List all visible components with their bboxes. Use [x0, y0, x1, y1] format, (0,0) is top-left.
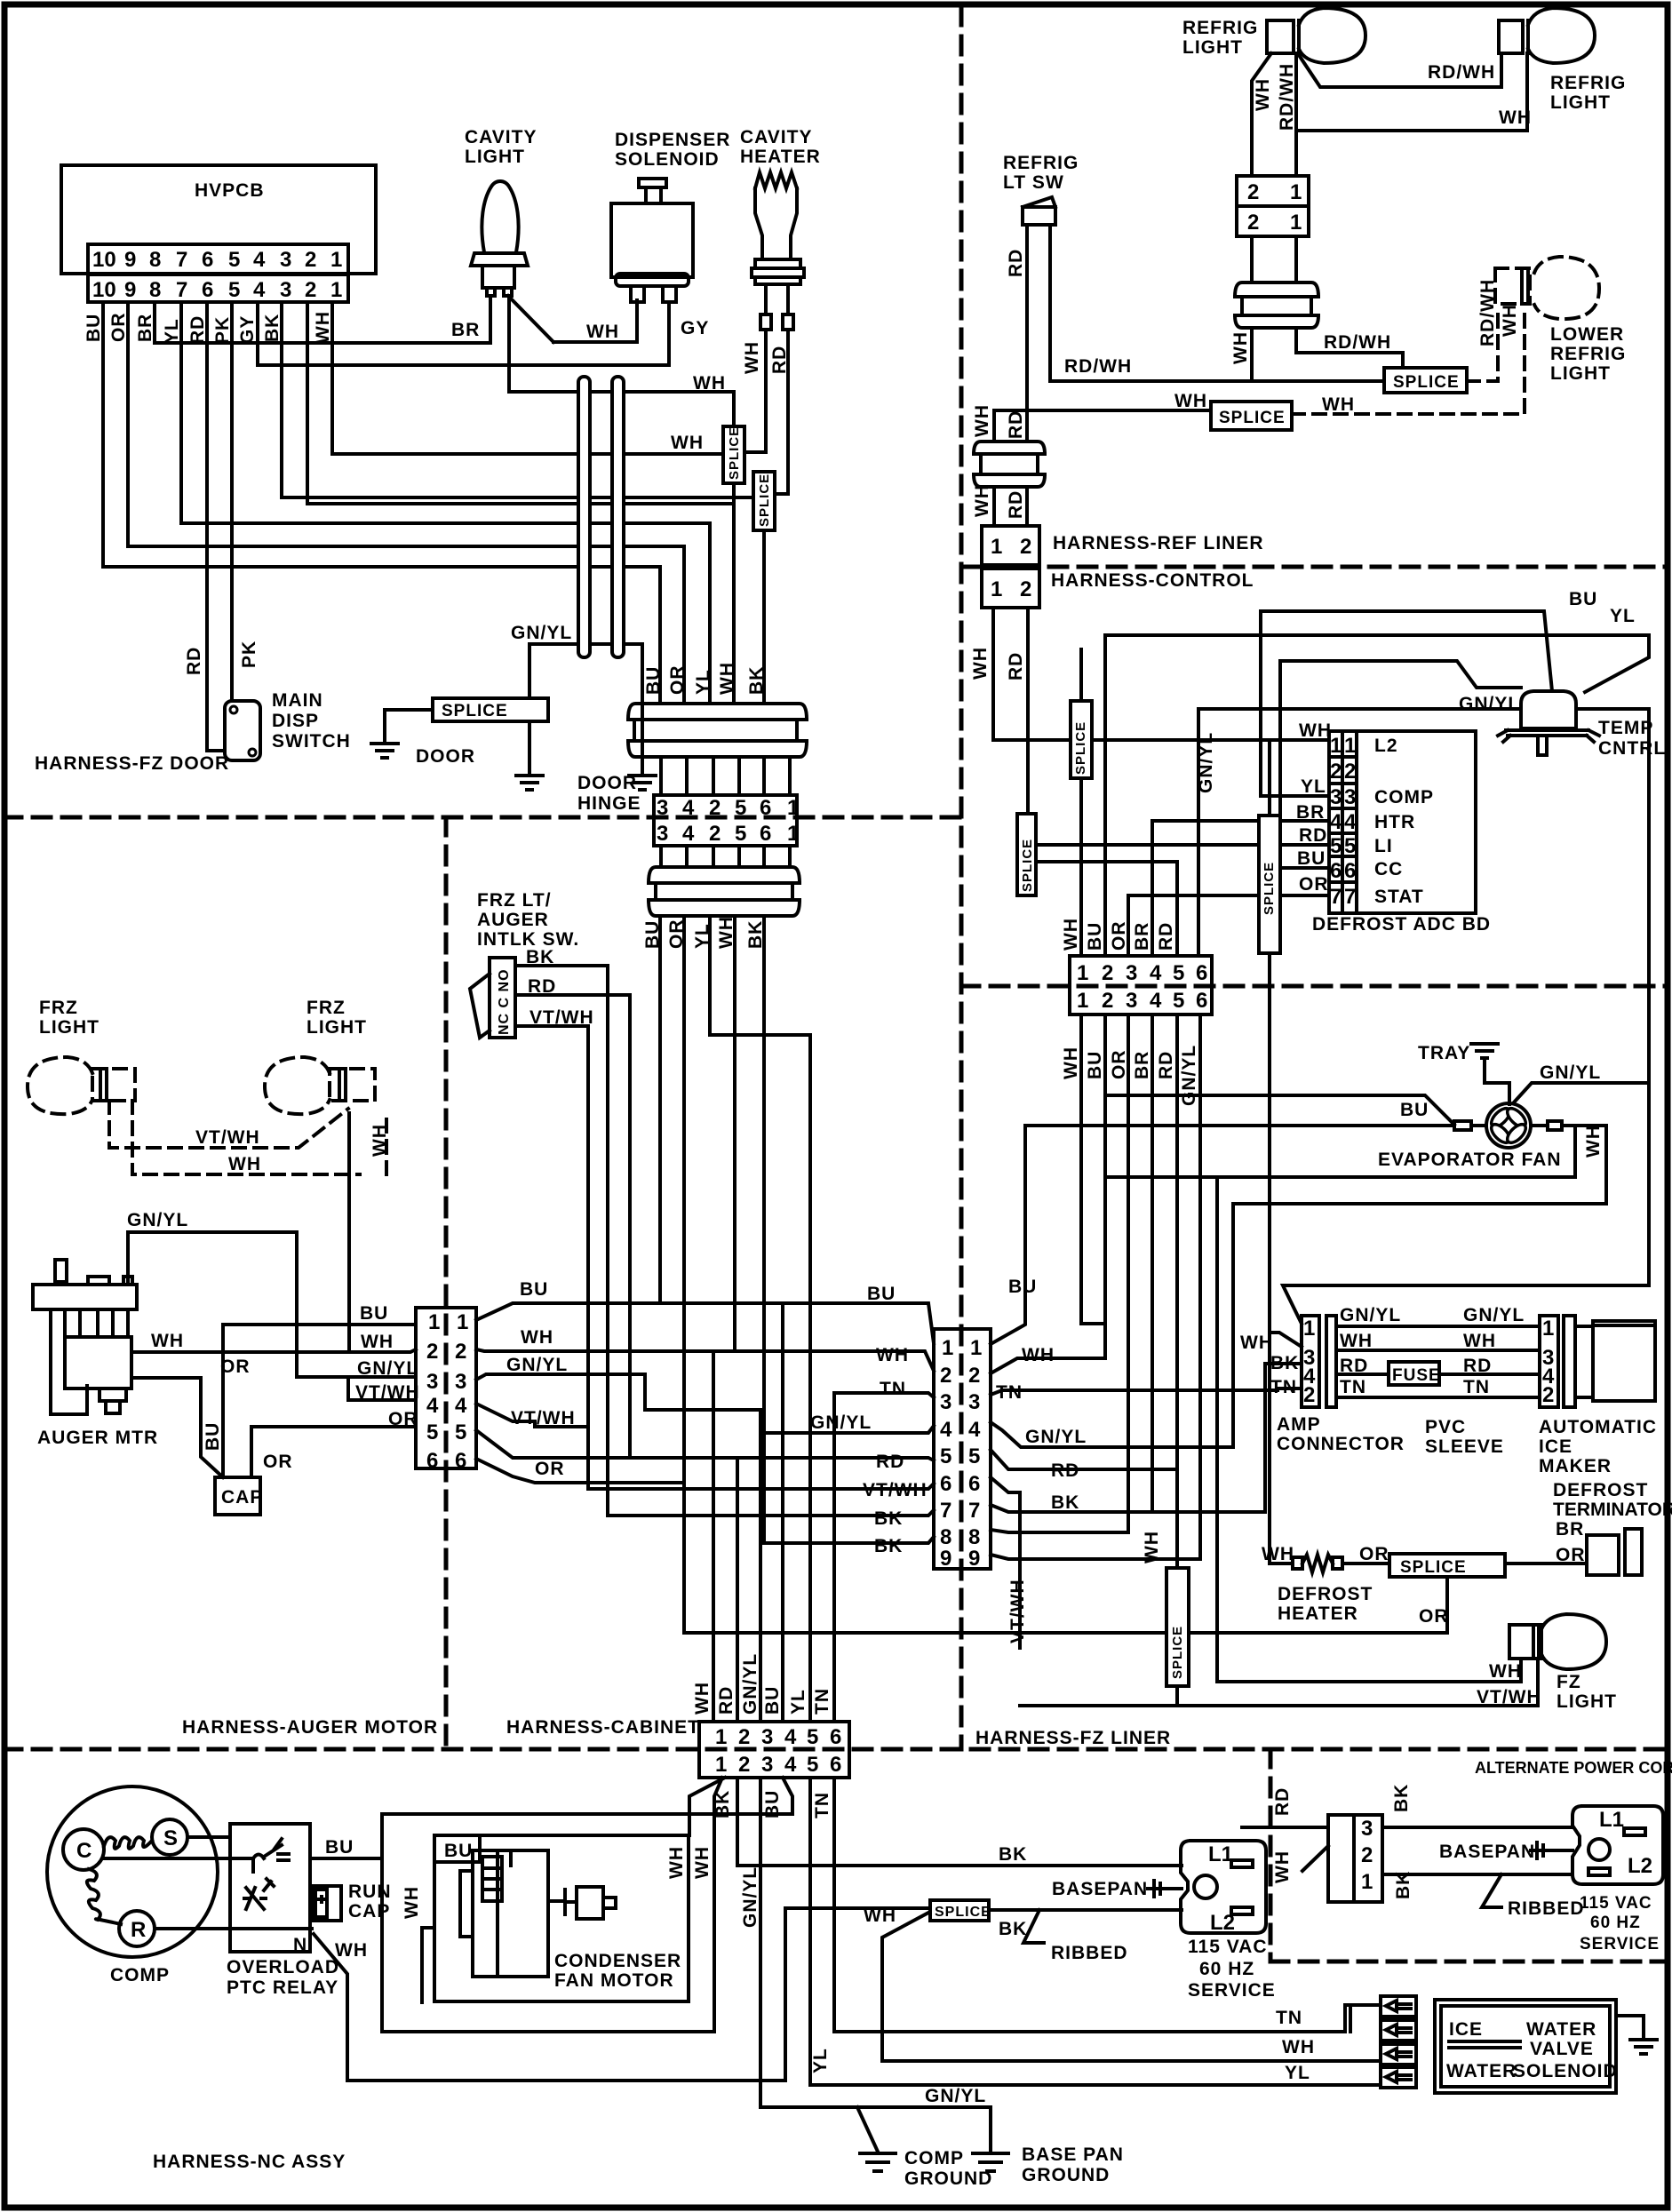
- refrig lt sw RD/WH wire: [1050, 225, 1384, 381]
- svg-text:RD: RD: [528, 976, 556, 997]
- solenoid pins: [631, 286, 644, 302]
- svg-text:5: 5: [426, 1420, 438, 1444]
- svg-text:2: 2: [1020, 577, 1031, 601]
- WH wire right light: [1297, 53, 1527, 131]
- S wire to relay: [187, 1835, 230, 1839]
- TN wire pin3 left: [834, 1393, 934, 1397]
- BR wire pin4: [1152, 821, 1329, 956]
- VT/WH wire intlk: [515, 1026, 934, 1489]
- svg-text:WH: WH: [864, 1906, 896, 1926]
- svg-text:RD: RD: [1299, 825, 1327, 846]
- 9pin connector box: [934, 1329, 991, 1569]
- svg-text:YL: YL: [1285, 2063, 1310, 2083]
- svg-text:SOLENOID: SOLENOID: [1513, 2061, 1618, 2081]
- WH wire to water valve: [882, 2059, 1381, 2063]
- splice5 box: [1259, 816, 1280, 953]
- svg-text:RD: RD: [1272, 1787, 1293, 1816]
- svg-text:LI: LI: [1374, 836, 1393, 856]
- svg-text:BU: BU: [84, 314, 104, 342]
- svg-text:TN: TN: [1463, 1377, 1490, 1397]
- WH wire cavity to solenoid: [553, 340, 637, 344]
- OR wire below boot to defrost heater return: [682, 916, 686, 1633]
- svg-text:GN/YL: GN/YL: [127, 1210, 188, 1230]
- door hinge connector box: [654, 795, 797, 846]
- svg-text:HEATER: HEATER: [740, 147, 821, 167]
- svg-text:GN/YL: GN/YL: [925, 2086, 986, 2106]
- svg-text:N: N: [293, 1935, 307, 1955]
- svg-text:6: 6: [760, 822, 771, 846]
- ice maker columns: [1540, 1316, 1558, 1407]
- connector 2-1 box: [1237, 176, 1309, 206]
- svg-text:HEATER: HEATER: [1278, 1603, 1358, 1624]
- svg-text:BASEPAN: BASEPAN: [1052, 1879, 1148, 1899]
- svg-text:SPLICE: SPLICE: [727, 426, 742, 480]
- right plug: [1572, 1806, 1663, 1884]
- svg-text:BU: BU: [642, 920, 663, 949]
- svg-text:WH: WH: [151, 1331, 184, 1351]
- BU wire to bundle: [476, 1303, 934, 1343]
- svg-text:1: 1: [428, 1310, 440, 1334]
- svg-text:BK: BK: [262, 314, 283, 342]
- svg-text:WH: WH: [716, 916, 736, 949]
- RD vertical cabinet: [736, 1458, 739, 1722]
- svg-text:VT/WH: VT/WH: [195, 1127, 260, 1148]
- svg-text:BU: BU: [1400, 1100, 1429, 1120]
- wire pin1 WH to splice: [332, 302, 723, 454]
- GN/YL wire pin3 down: [760, 1778, 991, 2150]
- svg-text:4: 4: [253, 278, 266, 302]
- svg-text:COMP: COMP: [904, 2148, 964, 2168]
- WH wire to splice: [994, 409, 1211, 412]
- svg-text:OR: OR: [667, 665, 688, 696]
- svg-text:4: 4: [1330, 810, 1342, 834]
- wire splice bottom to ground: [528, 721, 531, 773]
- comp ground: [860, 2153, 896, 2171]
- GN/YL wire into amp pin1: [1283, 1285, 1649, 1324]
- svg-text:1: 1: [1330, 734, 1342, 758]
- svg-text:WATER: WATER: [1446, 2061, 1517, 2081]
- svg-text:5: 5: [1173, 989, 1184, 1013]
- GN/YL wire from fan: [1514, 1083, 1649, 1102]
- TN wire pin6 down: [834, 1778, 1381, 2032]
- GN/YL wire to ice maker: [1336, 1325, 1540, 1328]
- solenoid cap: [639, 179, 666, 187]
- svg-text:BU: BU: [203, 1422, 223, 1451]
- motor windings grid: [482, 1857, 502, 1901]
- TN wire to ice maker: [1336, 1396, 1540, 1399]
- svg-text:115 VAC: 115 VAC: [1188, 1937, 1268, 1957]
- svg-text:2: 2: [426, 1340, 438, 1364]
- svg-text:TERMINATOR: TERMINATOR: [1553, 1500, 1672, 1520]
- svg-text:BU: BU: [867, 1284, 896, 1304]
- svg-text:5: 5: [1173, 961, 1184, 985]
- svg-text:3: 3: [455, 1370, 466, 1394]
- svg-text:3: 3: [426, 1370, 438, 1394]
- svg-text:10: 10: [92, 278, 116, 302]
- svg-text:HARNESS-NC ASSY: HARNESS-NC ASSY: [153, 2152, 346, 2172]
- GN/YL vertical to cabinet: [759, 1410, 762, 1722]
- svg-text:WH: WH: [1253, 78, 1273, 111]
- cavity light left pin wire: [489, 296, 492, 343]
- svg-text:3: 3: [1361, 1817, 1373, 1841]
- condenser enclosure: [434, 1835, 689, 2001]
- svg-text:SWITCH: SWITCH: [272, 731, 351, 752]
- svg-text:AMP: AMP: [1277, 1414, 1321, 1435]
- svg-text:GN/YL: GN/YL: [1025, 1427, 1087, 1447]
- svg-text:PVC: PVC: [1425, 1417, 1466, 1437]
- 9pin right: RD pin5: [991, 1450, 1177, 1469]
- svg-text:WH: WH: [586, 322, 619, 342]
- svg-text:5: 5: [228, 278, 240, 302]
- svg-text:2: 2: [305, 248, 316, 272]
- wire splice to door ground: [385, 710, 433, 741]
- svg-text:CONDENSER: CONDENSER: [554, 1951, 681, 1971]
- YL wire temp cntrl: [1105, 635, 1649, 692]
- svg-text:BU: BU: [1008, 1277, 1037, 1297]
- motor mount: [460, 1871, 473, 1937]
- svg-text:BK: BK: [746, 666, 767, 695]
- cabinet connector box: [699, 1722, 849, 1778]
- svg-text:3: 3: [1126, 989, 1137, 1013]
- svg-text:1: 1: [1290, 211, 1302, 235]
- svg-text:SPLICE: SPLICE: [757, 473, 772, 527]
- svg-text:L1: L1: [1599, 1808, 1624, 1832]
- svg-text:S: S: [163, 1826, 178, 1850]
- svg-text:RIBBED: RIBBED: [1051, 1943, 1128, 1963]
- frz light 2 socket dashed: [330, 1069, 375, 1101]
- wire pin9 OR: [128, 302, 684, 704]
- fz light bulb: [1541, 1614, 1606, 1669]
- tray ground: [1471, 1044, 1498, 1058]
- svg-text:CAVITY: CAVITY: [740, 127, 812, 147]
- VT/WH stub: [348, 1377, 416, 1400]
- svg-text:2: 2: [1247, 180, 1259, 204]
- heater right wire RD: [786, 284, 790, 314]
- svg-text:3: 3: [761, 1753, 773, 1777]
- svg-text:BU: BU: [360, 1303, 388, 1324]
- splice defrost box: [1389, 1554, 1505, 1577]
- svg-text:BU: BU: [1085, 922, 1105, 951]
- svg-text:ICE: ICE: [1449, 2019, 1483, 2040]
- BK bundle wire from splice: [762, 530, 766, 704]
- frz light 1 socket bars: [100, 1069, 107, 1101]
- svg-text:RD: RD: [1006, 652, 1026, 680]
- svg-text:OR: OR: [263, 1452, 293, 1472]
- svg-text:5: 5: [968, 1444, 980, 1468]
- OR wire below splice: [684, 1577, 1447, 1633]
- svg-text:HARNESS-AUGER MOTOR: HARNESS-AUGER MOTOR: [182, 1717, 438, 1738]
- svg-text:7: 7: [968, 1499, 980, 1523]
- svg-text:BASE PAN: BASE PAN: [1022, 2144, 1124, 2165]
- intlk switch box: [490, 958, 515, 1038]
- svg-text:BR: BR: [451, 320, 480, 340]
- svg-text:FAN MOTOR: FAN MOTOR: [554, 1970, 674, 1991]
- YL wire below boot to cabinet: [710, 916, 810, 1722]
- wire pin4 GY to dispenser solenoid: [258, 302, 669, 365]
- svg-text:7: 7: [176, 248, 187, 272]
- svg-text:2: 2: [455, 1340, 466, 1364]
- connector pins lower stubs: [661, 846, 790, 867]
- TN vertical to cabinet: [832, 1393, 836, 1722]
- svg-text:BU: BU: [762, 1686, 783, 1715]
- svg-text:6: 6: [1196, 961, 1207, 985]
- svg-text:CC: CC: [1374, 859, 1403, 879]
- svg-text:1: 1: [330, 278, 342, 302]
- fan blades: [1488, 1105, 1529, 1146]
- svg-text:6: 6: [202, 248, 213, 272]
- svg-text:3: 3: [280, 278, 291, 302]
- svg-text:BK: BK: [874, 1508, 903, 1529]
- wire pin3 BK to splice: [282, 302, 753, 497]
- svg-text:2: 2: [709, 796, 721, 820]
- frz light 1 socket dashed: [92, 1069, 135, 1101]
- WH wire from 6pin area to fan: [1025, 1124, 1454, 1127]
- svg-text:4: 4: [426, 1394, 439, 1418]
- OR wire to terminator: [1505, 1562, 1587, 1565]
- svg-text:OR: OR: [1109, 921, 1129, 951]
- VT/WH wire right: [476, 1404, 588, 1427]
- svg-text:CAP: CAP: [348, 1901, 390, 1922]
- svg-text:8: 8: [149, 278, 161, 302]
- svg-text:PTC RELAY: PTC RELAY: [227, 1977, 338, 1998]
- svg-text:6: 6: [940, 1472, 951, 1496]
- svg-text:OR: OR: [108, 313, 129, 343]
- svg-text:WH: WH: [972, 484, 992, 517]
- 9pin right: VT/WH pin6: [991, 1477, 1020, 1648]
- svg-text:LIGHT: LIGHT: [1550, 363, 1611, 384]
- ground below splice: [516, 776, 543, 790]
- svg-text:9: 9: [968, 1547, 980, 1571]
- svg-text:BU: BU: [1085, 1051, 1105, 1079]
- WH wire to ice maker: [1336, 1349, 1540, 1352]
- defrost board pin column: [1329, 731, 1357, 913]
- fan circle: [1486, 1103, 1531, 1148]
- svg-text:HINGE: HINGE: [577, 793, 641, 814]
- svg-text:WH: WH: [742, 341, 762, 374]
- svg-text:TEMP: TEMP: [1598, 718, 1653, 738]
- auger motor stud: [100, 1388, 126, 1401]
- BK wire lower: [1382, 1873, 1572, 1876]
- BU box label outline: [434, 1835, 480, 1862]
- svg-text:115 VAC: 115 VAC: [1580, 1894, 1652, 1913]
- pvc sleeve column: [1326, 1316, 1336, 1407]
- svg-text:CAVITY: CAVITY: [465, 127, 537, 147]
- svg-text:TN: TN: [996, 1382, 1023, 1403]
- boot upper: [628, 704, 807, 757]
- GN/YL wire down: [1198, 709, 1649, 956]
- svg-text:WH: WH: [671, 433, 704, 453]
- BK wire below boot to 9pin pin8: [762, 916, 766, 1543]
- svg-text:BR: BR: [1132, 922, 1152, 951]
- GN/YL wire auger: [128, 1232, 416, 1377]
- 3-2-1 connector: [1328, 1815, 1382, 1902]
- svg-text:SPLICE: SPLICE: [442, 702, 508, 720]
- svg-text:BU: BU: [1569, 589, 1597, 609]
- svg-text:WH: WH: [1322, 394, 1355, 415]
- svg-text:TN: TN: [1340, 1377, 1366, 1397]
- fz light socket: [1509, 1625, 1541, 1659]
- svg-text:5: 5: [455, 1420, 466, 1444]
- terminal joining wire: [1350, 2005, 1381, 2032]
- svg-text:L2: L2: [1628, 1854, 1652, 1878]
- svg-text:4: 4: [1344, 810, 1357, 834]
- svg-text:FZ: FZ: [1557, 1672, 1581, 1692]
- svg-text:VT/WH: VT/WH: [355, 1382, 420, 1403]
- svg-text:1: 1: [1077, 989, 1088, 1013]
- svg-text:4: 4: [784, 1753, 797, 1777]
- svg-text:RD/WH: RD/WH: [1324, 332, 1391, 353]
- refrig light 2 socket: [1499, 20, 1523, 53]
- svg-text:RD: RD: [1006, 249, 1026, 277]
- svg-text:RD: RD: [1006, 490, 1026, 519]
- cavity light right pin diagonal wire: [508, 296, 553, 342]
- svg-text:WH: WH: [1262, 1544, 1294, 1564]
- svg-text:WH: WH: [1142, 1531, 1162, 1564]
- svg-text:WH: WH: [692, 1682, 713, 1715]
- svg-text:TN: TN: [812, 1688, 832, 1715]
- RD wire splice to pin5: [1036, 843, 1329, 847]
- svg-text:5: 5: [1344, 834, 1356, 858]
- svg-text:5: 5: [735, 796, 746, 820]
- svg-text:4: 4: [784, 1725, 797, 1749]
- OR wire right: [476, 1430, 934, 1460]
- splice7 box: [1166, 1568, 1189, 1686]
- comp circle: [47, 1786, 218, 1957]
- svg-text:CAP: CAP: [221, 1487, 263, 1508]
- svg-text:FRZ: FRZ: [39, 998, 78, 1018]
- svg-text:BK: BK: [999, 1919, 1027, 1939]
- svg-text:REFRIG: REFRIG: [1550, 344, 1626, 364]
- svg-text:6: 6: [1196, 989, 1207, 1013]
- svg-text:RD: RD: [184, 647, 204, 675]
- dispenser solenoid left pin wire: [635, 300, 639, 342]
- svg-text:2: 2: [738, 1725, 750, 1749]
- WH wire pin2 down: [689, 1778, 725, 1835]
- relay switch symbol: [253, 1839, 289, 1860]
- svg-text:BK: BK: [1391, 1784, 1412, 1812]
- frz light 2 bulb dashed: [265, 1057, 330, 1114]
- svg-text:YL: YL: [693, 669, 713, 695]
- RD wire intlk: [515, 995, 630, 1458]
- svg-text:5: 5: [228, 248, 240, 272]
- cavity light pins: [487, 288, 495, 296]
- svg-text:YL: YL: [1610, 606, 1636, 626]
- run cap: [312, 1886, 341, 1921]
- RD wire to connector: [1242, 1826, 1328, 1829]
- svg-text:60 HZ: 60 HZ: [1590, 1914, 1641, 1932]
- svg-text:COMP: COMP: [1374, 787, 1434, 808]
- BU wire cap: [221, 1325, 225, 1477]
- svg-text:BU: BU: [444, 1841, 473, 1861]
- frz light 1 wires dashed: [109, 1101, 348, 1148]
- boot lower: [649, 867, 800, 916]
- coil C-S: [104, 1837, 152, 1849]
- WH return wire: [1105, 1126, 1575, 1177]
- svg-text:MAKER: MAKER: [1539, 1456, 1612, 1476]
- splice RD box: [753, 472, 775, 530]
- temp cntrl bell: [1521, 691, 1576, 728]
- svg-text:OR: OR: [388, 1409, 418, 1429]
- lower refrig light bulb dashed: [1534, 257, 1599, 319]
- svg-text:GY: GY: [681, 318, 709, 338]
- svg-text:1: 1: [991, 577, 1002, 601]
- svg-text:RD: RD: [1340, 1356, 1368, 1376]
- svg-text:4: 4: [455, 1394, 467, 1418]
- svg-text:WH: WH: [970, 647, 991, 680]
- svg-text:1: 1: [787, 822, 799, 846]
- svg-text:RD: RD: [1051, 1460, 1079, 1481]
- svg-text:GN/YL: GN/YL: [1196, 732, 1216, 793]
- wires boot to connector: [994, 487, 1027, 526]
- svg-text:WH: WH: [1463, 1331, 1496, 1351]
- svg-text:GN/YL: GN/YL: [1540, 1062, 1601, 1083]
- ribbed callout: [1023, 1910, 1044, 1943]
- BU wire to fan: [1105, 1095, 1454, 1125]
- defrost heater resistor: [1288, 1555, 1389, 1572]
- svg-text:8: 8: [940, 1525, 951, 1549]
- BU wire temp cntrl: [1261, 611, 1552, 691]
- svg-text:AUTOMATIC: AUTOMATIC: [1539, 1417, 1657, 1437]
- svg-text:3: 3: [940, 1390, 951, 1414]
- svg-text:2: 2: [709, 822, 721, 846]
- connector pins upper stubs: [661, 757, 790, 795]
- cavity light base: [482, 266, 514, 288]
- svg-text:1: 1: [715, 1725, 727, 1749]
- svg-text:DEFROST ADC BD: DEFROST ADC BD: [1312, 914, 1491, 935]
- OR wire pin6: [476, 1459, 684, 1483]
- svg-text:4: 4: [253, 248, 266, 272]
- svg-text:WH: WH: [1174, 391, 1207, 411]
- svg-text:BK: BK: [745, 920, 766, 949]
- WH vertical cabinet: [712, 1351, 715, 1722]
- svg-text:2: 2: [1361, 1843, 1373, 1867]
- svg-text:2: 2: [1303, 1383, 1315, 1407]
- door hinge tubes: [578, 377, 624, 657]
- svg-text:1: 1: [457, 1310, 468, 1334]
- svg-text:BK: BK: [1393, 1871, 1413, 1899]
- svg-text:EVAPORATOR FAN: EVAPORATOR FAN: [1378, 1150, 1562, 1170]
- valve ground wire: [1616, 2016, 1644, 2038]
- lower refrig light socket dashed: [1495, 268, 1530, 304]
- svg-text:4: 4: [940, 1418, 952, 1442]
- ribbed callout right: [1482, 1874, 1501, 1907]
- svg-text:LIGHT: LIGHT: [307, 1017, 367, 1038]
- svg-text:5: 5: [940, 1444, 951, 1468]
- svg-text:SPLICE: SPLICE: [1400, 1558, 1467, 1577]
- svg-text:WH: WH: [692, 1846, 713, 1879]
- fan right lead connector: [1531, 1124, 1548, 1127]
- svg-text:RD: RD: [1463, 1356, 1492, 1376]
- svg-text:ICE: ICE: [1539, 1436, 1572, 1457]
- svg-text:TN: TN: [812, 1792, 832, 1818]
- refrig light 1 RD/WH wire: [1294, 53, 1298, 176]
- svg-text:OR: OR: [1109, 1050, 1129, 1080]
- svg-text:VT/WH: VT/WH: [529, 1007, 594, 1028]
- svg-text:RD: RD: [1006, 410, 1026, 439]
- S winding: [152, 1819, 187, 1855]
- svg-text:WH: WH: [402, 1886, 422, 1919]
- svg-text:7: 7: [176, 278, 187, 302]
- svg-text:STAT: STAT: [1374, 887, 1424, 907]
- svg-text:HVPCB: HVPCB: [195, 180, 265, 201]
- BU wire from relay: [310, 1858, 714, 2032]
- frz light 2 WH wire solid: [347, 1113, 351, 1351]
- svg-text:LIGHT: LIGHT: [1182, 37, 1243, 58]
- svg-text:SERVICE: SERVICE: [1188, 1980, 1276, 2001]
- svg-text:LIGHT: LIGHT: [1557, 1691, 1617, 1712]
- svg-text:7: 7: [940, 1499, 951, 1523]
- WH wire fz light: [1217, 1659, 1521, 1682]
